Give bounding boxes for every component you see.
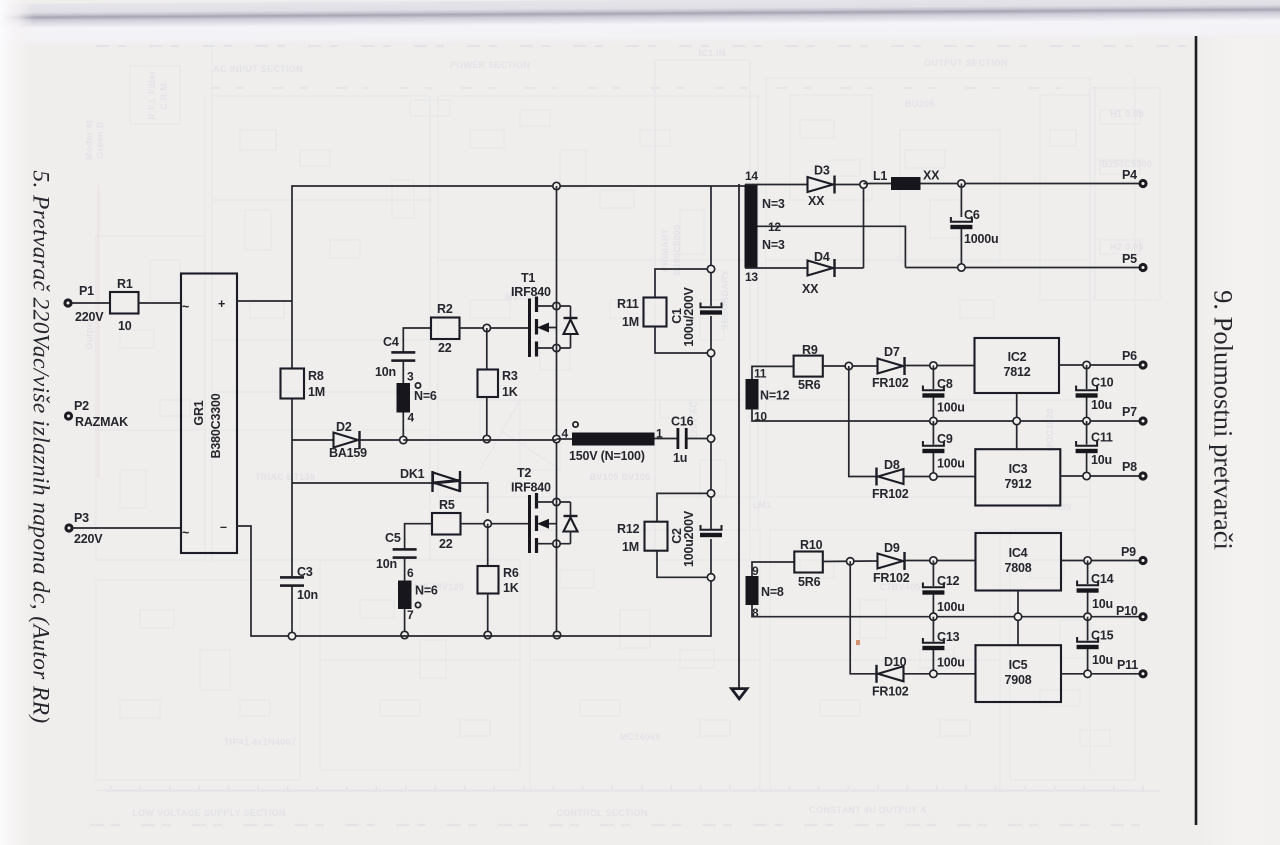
svg-text:–: –: [220, 520, 227, 534]
svg-text:CONSTANT 4U OUTPUT A: CONSTANT 4U OUTPUT A: [809, 805, 927, 815]
svg-text:100u/200V: 100u/200V: [682, 286, 696, 346]
svg-text:C.R.M.: C.R.M.: [159, 80, 169, 110]
svg-text:B380C5000: B380C5000: [672, 225, 682, 276]
junction node (556.5,543.7): [553, 540, 560, 547]
svg-text:1K: 1K: [503, 581, 519, 595]
svg-text:10n: 10n: [376, 557, 397, 571]
svg-text:220V: 220V: [74, 532, 103, 546]
IC4/IC5 ground pins: [1017, 591, 1019, 646]
capacitor C4 10n: [391, 351, 415, 362]
wire to D2: [292, 439, 333, 441]
svg-text:10: 10: [118, 319, 132, 333]
svg-text:H1 0.05: H1 0.05: [1110, 109, 1144, 119]
junction node (557,635): [553, 631, 560, 638]
svg-text:R10: R10: [800, 538, 823, 552]
T1 drain/source nodes: [553, 302, 560, 309]
svg-text:C13: C13: [937, 630, 960, 644]
svg-text:10u: 10u: [1091, 453, 1112, 467]
capacitor C16 1u: [677, 428, 680, 449]
svg-text:FR102: FR102: [872, 376, 909, 390]
svg-text:XX: XX: [923, 169, 940, 183]
svg-text:100u: 100u: [937, 401, 965, 415]
svg-text:P4: P4: [1122, 168, 1137, 182]
junction node (961.4,183.5): [958, 180, 965, 187]
faint pink scan streak: [98, 185, 100, 478]
wire P3 to GR1: [73, 527, 181, 529]
svg-text:6: 6: [407, 566, 414, 580]
svg-text:T2: T2: [517, 466, 531, 480]
svg-text:1K: 1K: [502, 385, 518, 399]
svg-text:R6: R6: [503, 566, 519, 580]
svg-text:IC2: IC2: [1008, 350, 1027, 364]
svg-text:CONTROL SECTION: CONTROL SECTION: [556, 808, 647, 818]
svg-text:FR102: FR102: [872, 685, 909, 699]
svg-text:R3: R3: [502, 369, 518, 383]
svg-text:TIP41 4x1N4007: TIP41 4x1N4007: [224, 737, 296, 747]
junction node (556.5,186): [553, 182, 560, 189]
ghost bleed-through of reverse page (decorative, faint): [90, 46, 1188, 825]
svg-text:D8: D8: [884, 458, 900, 472]
svg-text:R8: R8: [308, 369, 324, 383]
svg-text:C6: C6: [964, 208, 980, 222]
junction node (850.2,561.3): [847, 558, 854, 565]
svg-text:7812: 7812: [1003, 365, 1030, 379]
svg-text:IRF840: IRF840: [511, 481, 551, 495]
capacitor C1 100u/200V: [700, 303, 722, 315]
capacitor C3 10n: [280, 576, 304, 587]
primary node wire: [403, 439, 556, 441]
svg-text:150V (N=100): 150V (N=100): [569, 449, 645, 463]
svg-text:BV105 BV105: BV105 BV105: [590, 472, 651, 482]
junction node (863.5,184.5): [860, 181, 867, 188]
wire R1 to GR1: [139, 302, 182, 304]
resistor R5: [432, 513, 461, 535]
secondary winding pins 14-12-13 (N=3/N=3): [745, 185, 758, 269]
capacitor C15 10u: [1087, 617, 1089, 641]
svg-text:10n: 10n: [297, 588, 318, 602]
svg-text:T1: T1: [521, 271, 535, 285]
svg-text:10u: 10u: [1092, 653, 1113, 667]
svg-text:D7: D7: [884, 345, 900, 359]
resistor R2: [431, 318, 460, 340]
svg-text:P6: P6: [1122, 349, 1137, 363]
svg-text:10n: 10n: [375, 365, 396, 379]
ground arrow: [732, 689, 748, 699]
svg-text:C14: C14: [1091, 572, 1114, 586]
svg-text:8: 8: [752, 606, 759, 620]
HV bus vertical: [710, 186, 712, 306]
svg-text:100u: 100u: [937, 600, 965, 614]
diode D4: [808, 261, 834, 276]
svg-text:LOW VOLTAGE SUPPLY SECTION: LOW VOLTAGE SUPPLY SECTION: [132, 808, 285, 818]
svg-text:7: 7: [407, 608, 414, 622]
svg-text:7912: 7912: [1004, 477, 1031, 491]
winding polarity dot: [415, 602, 420, 607]
svg-text:R11: R11: [617, 297, 639, 311]
bridge rectifier GR1 B380C3300: [181, 274, 237, 554]
junction node (486.8,439): [483, 435, 490, 442]
half-bridge vertical: [556, 186, 558, 439]
wire DK1 to R5 node: [460, 483, 488, 513]
capacitor C11 10u: [1086, 421, 1088, 445]
svg-text:N=8: N=8: [761, 585, 784, 599]
diode D2 BA159: [334, 433, 359, 448]
capacitor C12 100u: [932, 561, 934, 587]
svg-text:1M: 1M: [308, 385, 325, 399]
svg-text:MC14069: MC14069: [619, 732, 660, 742]
svg-text:P1: P1: [79, 284, 94, 298]
bottom rail: [292, 577, 711, 636]
diode D3: [808, 177, 834, 192]
junction node (1018,616.7): [1014, 613, 1021, 620]
svg-text:XX: XX: [808, 194, 825, 208]
node R3 top: [483, 324, 490, 331]
svg-text:AC INPUT SECTION: AC INPUT SECTION: [213, 64, 303, 74]
svg-text:PRIMARY: PRIMARY: [660, 228, 670, 271]
IC2/IC3 ground pins: [1016, 393, 1018, 449]
junction node (711,493.4): [707, 490, 714, 497]
svg-text:1000u: 1000u: [964, 232, 998, 246]
IC4 out to P9: [1061, 560, 1143, 562]
svg-text:FR102: FR102: [872, 487, 909, 501]
svg-text:D9: D9: [884, 541, 900, 555]
svg-text:P8: P8: [1122, 460, 1137, 474]
svg-text:14: 14: [745, 169, 758, 183]
svg-text:H2 0.05: H2 0.05: [1110, 242, 1144, 252]
svg-text:1M: 1M: [622, 315, 639, 329]
ground rail (8V group): [752, 605, 1143, 617]
wire pin13 to D4: [745, 267, 807, 269]
svg-text:POWER SECTION: POWER SECTION: [450, 60, 530, 70]
svg-text:100u200V: 100u200V: [682, 510, 696, 567]
transformer winding N=6 (pins 3-4): [402, 362, 404, 440]
junction node (556.5,348): [553, 344, 560, 351]
svg-text:D3: D3: [814, 164, 830, 178]
junction node (292,636): [288, 632, 295, 639]
terminal P3: [64, 523, 73, 532]
junction node (1086.6,365): [1083, 361, 1090, 368]
inductor L1: [864, 183, 892, 185]
svg-text:C5: C5: [385, 531, 401, 545]
wire pin11 to R9: [752, 366, 794, 379]
diode D7 FR102: [878, 359, 904, 374]
svg-text:OUTPUT SECTION: OUTPUT SECTION: [924, 58, 1008, 68]
wire gate row upper: [403, 328, 431, 352]
svg-text:IC5: IC5: [1009, 658, 1028, 672]
svg-text:22: 22: [438, 341, 452, 355]
top rail: [292, 186, 745, 301]
diode D9 FR102: [878, 554, 904, 569]
svg-text:1M: 1M: [622, 540, 639, 554]
wire D2 to node: [360, 439, 404, 441]
svg-text:P5: P5: [1122, 252, 1137, 266]
left vertical bus: [291, 301, 293, 369]
junction node (711,353): [707, 349, 714, 356]
svg-text:MOC3020: MOC3020: [1045, 408, 1055, 451]
junction node (933.4,616.7): [930, 613, 937, 620]
IC3 out to P8: [1060, 475, 1143, 477]
wire GR1+ to node: [237, 300, 292, 302]
D10 feed line: [850, 561, 876, 674]
svg-text:100u: 100u: [937, 457, 965, 471]
svg-text:C4: C4: [383, 335, 399, 349]
svg-text:+: +: [218, 297, 225, 311]
svg-text:RAZMAK: RAZMAK: [75, 415, 128, 429]
svg-text:R.F.I. Filter: R.F.I. Filter: [147, 70, 157, 120]
svg-text:P7: P7: [1122, 405, 1137, 419]
junction node (556.5,502): [553, 498, 560, 505]
junction node (556.5,439): [553, 435, 560, 442]
resistor R1: [110, 292, 139, 314]
svg-text:B380C3300: B380C3300: [209, 393, 223, 458]
terminal P2: [64, 411, 73, 420]
svg-text:IC4: IC4: [1009, 546, 1028, 560]
svg-text:P10: P10: [1116, 604, 1138, 618]
svg-text:R12: R12: [617, 522, 640, 536]
junction node (487.7,635): [484, 631, 491, 638]
svg-text:9: 9: [752, 564, 759, 578]
svg-text:P3: P3: [74, 511, 89, 525]
body diode of T2: [570, 502, 572, 516]
svg-text:P9: P9: [1121, 545, 1136, 559]
D3/D4 tie line: [863, 185, 865, 269]
svg-text:C16: C16: [671, 415, 694, 429]
svg-text:N=3: N=3: [762, 238, 785, 252]
svg-text:R5: R5: [439, 498, 455, 512]
capacitor C10 10u: [1086, 365, 1088, 389]
svg-text:4: 4: [408, 411, 415, 425]
capacitor C8 100u: [932, 366, 934, 390]
regulator IC3 7912: [975, 449, 1060, 505]
svg-text:BU208: BU208: [905, 99, 935, 109]
header rule (right side of page): [1195, 36, 1198, 825]
junction node (1016.7,421): [1013, 417, 1020, 424]
svg-text:IRF840: IRF840: [511, 285, 551, 299]
winding polarity dot: [573, 422, 578, 427]
winding N=8 (pins 9-8): [746, 576, 759, 605]
regulator IC5 7908: [976, 645, 1062, 702]
wire to DK1: [292, 482, 432, 484]
svg-text:D4: D4: [814, 250, 830, 264]
svg-text:5R6: 5R6: [798, 378, 821, 392]
junction node (711,269): [707, 265, 714, 272]
junction node (1086.6,476): [1083, 472, 1090, 479]
capacitor C5 10n: [393, 548, 417, 559]
junction node (487.7,523.7): [484, 520, 491, 527]
IC2 out to P6: [1059, 364, 1143, 366]
svg-text:BA159: BA159: [329, 446, 367, 460]
terminal P1: [63, 298, 72, 307]
wire pin9 to R10: [752, 562, 794, 576]
svg-text:5R6: 5R6: [798, 575, 821, 589]
svg-text:SECONDARY: SECONDARY: [720, 270, 730, 330]
P5 line: [905, 267, 1143, 269]
ground rail (12V group): [752, 409, 1143, 421]
capacitor C2 100u200V: [700, 525, 722, 537]
svg-text:DK1: DK1: [400, 467, 425, 481]
junction node (933.4,673.8): [930, 670, 937, 677]
svg-text:N=12: N=12: [760, 389, 790, 403]
svg-text:C10: C10: [1091, 376, 1114, 390]
resistor R3: [486, 328, 488, 370]
capacitor C6 1000u: [960, 184, 962, 218]
regulator IC2 7812: [975, 338, 1060, 393]
junction node (404.6,635): [401, 631, 408, 638]
svg-text:R9: R9: [802, 343, 818, 357]
resistor R10: [794, 552, 823, 573]
svg-text:P2: P2: [74, 399, 89, 413]
svg-text:C12: C12: [937, 574, 960, 588]
svg-text:C9: C9: [937, 432, 953, 446]
svg-text:1u: 1u: [673, 451, 687, 465]
svg-text:L1: L1: [873, 169, 887, 183]
svg-text:IC1 IN: IC1 IN: [698, 48, 725, 58]
svg-text:R2: R2: [437, 302, 453, 316]
svg-text:Green B: Green B: [95, 121, 105, 158]
svg-text:XX: XX: [802, 282, 819, 296]
svg-text:3: 3: [407, 370, 414, 384]
junction node (933.4,560.5): [930, 557, 937, 564]
svg-text:R1: R1: [117, 277, 133, 291]
wire pin14 to D3: [745, 184, 807, 186]
svg-text:10u: 10u: [1092, 597, 1113, 611]
svg-text:N=3: N=3: [762, 197, 785, 211]
svg-text:P11: P11: [1117, 658, 1138, 672]
diode D10 FR102 (reversed): [875, 665, 877, 683]
svg-text:TRIAC BT138: TRIAC BT138: [255, 472, 315, 482]
junction node (933.4,421): [930, 417, 937, 424]
svg-text:220V: 220V: [75, 310, 104, 324]
svg-text:C3: C3: [297, 565, 313, 579]
node D2/C4: [400, 436, 407, 443]
resistor R8: [281, 369, 305, 399]
svg-text:N=6: N=6: [414, 389, 437, 403]
junction node (1087.6,560.5): [1084, 557, 1091, 564]
wire R5 to T2 gate: [461, 523, 529, 525]
svg-text:5. Pretvarač 220Vac/više izlaz: 5. Pretvarač 220Vac/više izlaznih napona…: [28, 170, 54, 723]
capacitor C13 100u: [932, 617, 934, 642]
wire R2 to T1 gate: [460, 327, 529, 329]
transformer core line: [738, 184, 740, 688]
svg-text:C11: C11: [1091, 431, 1113, 445]
IC5 out to P11: [1061, 673, 1143, 675]
wire gate row lower: [405, 524, 432, 549]
resistor R9: [794, 356, 823, 377]
capacitor C9 100u: [932, 421, 934, 445]
junction node (933.4,365.5): [930, 362, 937, 369]
svg-text:IC3: IC3: [1009, 462, 1028, 476]
transil DK1: [431, 471, 433, 492]
svg-text:C15: C15: [1091, 629, 1114, 643]
svg-text:LM1: LM1: [753, 500, 772, 510]
svg-text:N=6: N=6: [415, 584, 438, 598]
wire GR1- to bottom rail: [237, 526, 292, 636]
svg-text:10u: 10u: [1091, 398, 1112, 412]
junction node (1087.6,616.7): [1084, 613, 1091, 620]
capacitor C14 10u: [1087, 561, 1089, 585]
svg-text:9. Polumostni pretvarači: 9. Polumostni pretvarači: [1209, 290, 1239, 550]
resistor R11: [655, 269, 711, 298]
svg-text:~: ~: [182, 526, 189, 540]
winding polarity dot: [415, 383, 420, 388]
junction node (1087.6,673.8): [1084, 670, 1091, 677]
junction node (711,438.5): [707, 435, 714, 442]
resistor R12: [657, 493, 711, 521]
svg-text:11: 11: [754, 367, 767, 381]
svg-text:GR1: GR1: [192, 400, 206, 425]
svg-text:C8: C8: [937, 377, 953, 391]
svg-text:~: ~: [182, 300, 189, 314]
D8 feed line: [849, 366, 876, 477]
center tap pin12 route: [758, 226, 906, 267]
wire P1 to R1: [72, 302, 110, 304]
junction node (933.4,476.5): [930, 473, 937, 480]
svg-text:FR102: FR102: [873, 571, 910, 585]
svg-text:D2: D2: [336, 420, 352, 434]
regulator IC4 7808: [976, 533, 1062, 591]
diode D8 FR102 (reversed): [875, 468, 877, 486]
svg-text:22: 22: [439, 537, 453, 551]
svg-text:4: 4: [562, 427, 569, 441]
body diode of T1: [570, 306, 572, 318]
svg-text:7808: 7808: [1004, 561, 1031, 575]
junction node (1086.6,421): [1083, 417, 1090, 424]
junction node (711,577.3): [707, 574, 714, 581]
svg-text:13: 13: [745, 270, 758, 284]
transformer winding N=6 (pins 6-7): [404, 559, 406, 635]
winding N=12 (pins 11-10): [746, 379, 759, 410]
svg-text:D10: D10: [884, 655, 907, 669]
junction node (961.4,267.5): [958, 264, 965, 271]
junction node (848.8,366): [845, 362, 852, 369]
svg-text:Moder 4t: Moder 4t: [84, 120, 94, 160]
resistor R6: [487, 524, 489, 566]
svg-text:100u: 100u: [937, 656, 965, 670]
svg-text:7908: 7908: [1004, 673, 1031, 687]
